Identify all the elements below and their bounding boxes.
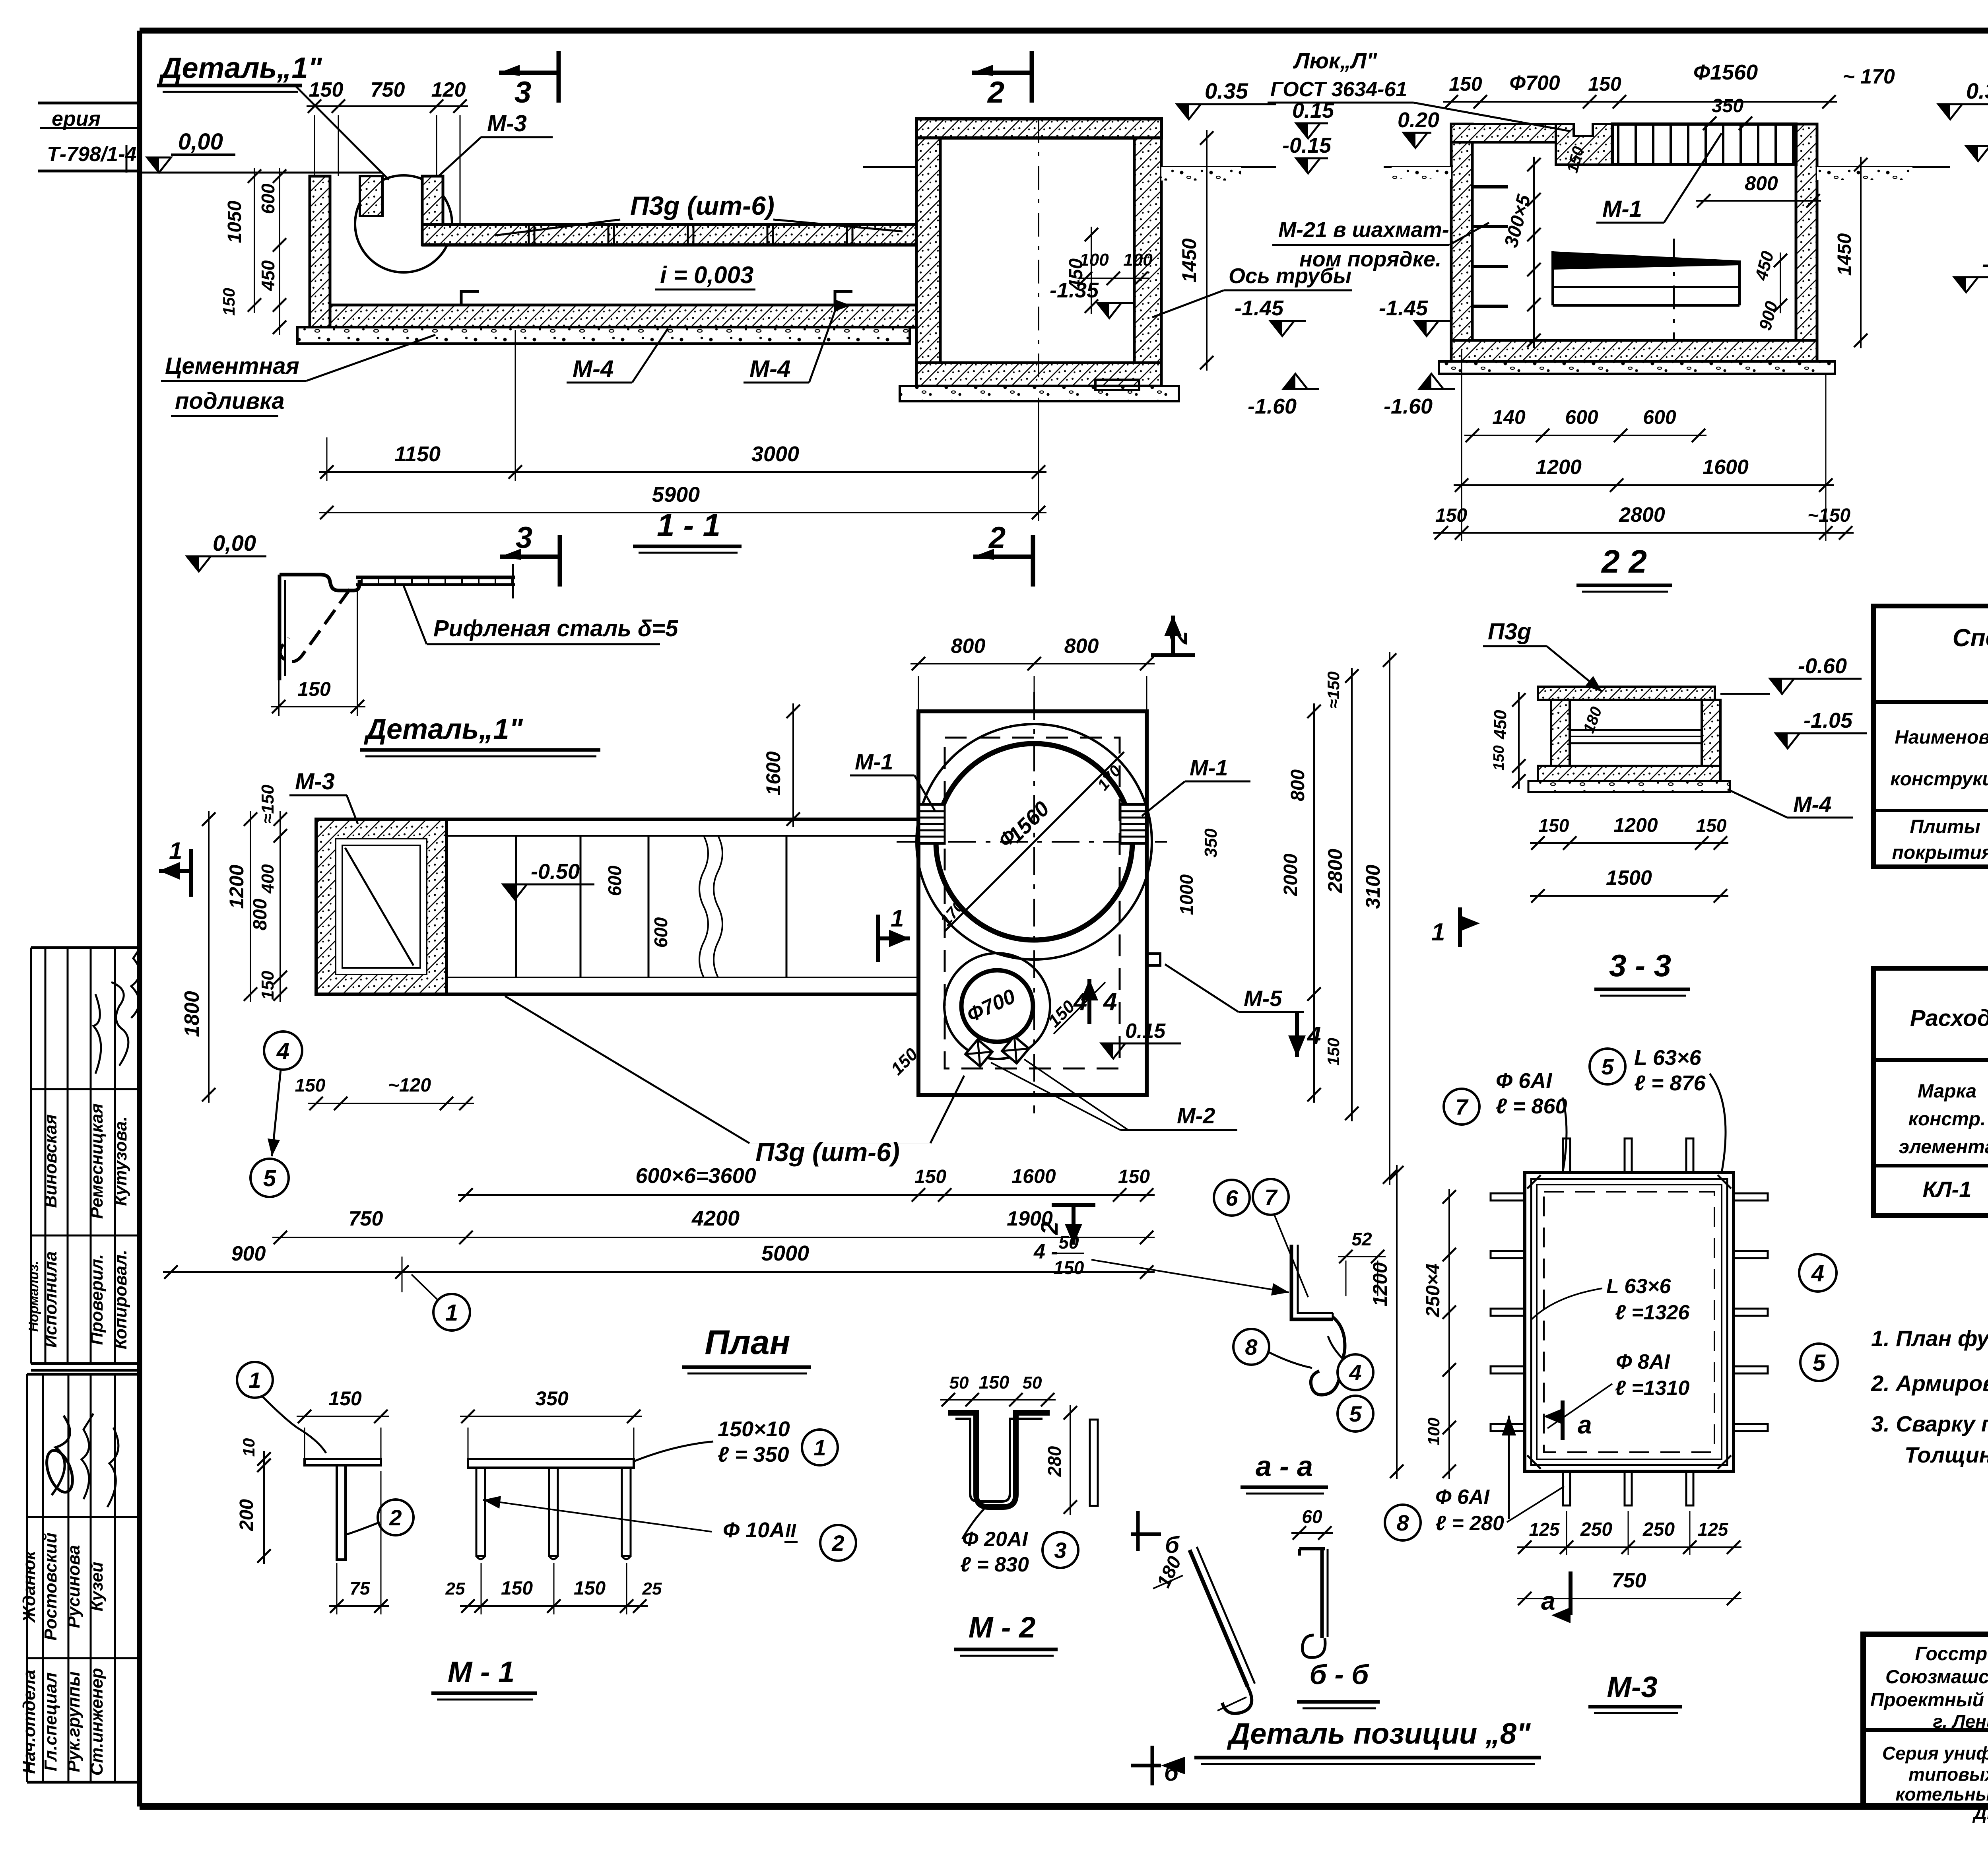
- svg-text:М-5: М-5: [1244, 986, 1282, 1011]
- svg-text:150: 150: [328, 1387, 362, 1410]
- svg-text:Т-798/1-4: Т-798/1-4: [47, 143, 137, 166]
- svg-text:Расход бетона и стали на один: Расход бетона и стали на один констр. мо…: [1910, 1005, 1988, 1031]
- svg-text:150: 150: [295, 1075, 326, 1096]
- svg-text:350: 350: [1201, 828, 1221, 858]
- svg-text:Рифленая сталь δ=5: Рифленая сталь δ=5: [433, 616, 678, 641]
- svg-text:8: 8: [1396, 1510, 1409, 1535]
- svg-text:ном порядке.: ном порядке.: [1299, 247, 1441, 271]
- svg-text:2: 2: [987, 76, 1004, 109]
- svg-text:5: 5: [1813, 1350, 1826, 1376]
- svg-text:М-1: М-1: [1190, 755, 1228, 780]
- svg-text:2. Армирование см. листы КЖ-21: 2. Армирование см. листы КЖ-21, 22.: [1871, 1371, 1988, 1396]
- svg-text:120: 120: [431, 78, 466, 101]
- svg-text:150: 150: [219, 288, 238, 316]
- svg-text:800: 800: [250, 899, 271, 930]
- svg-text:100: 100: [1123, 250, 1153, 270]
- svg-text:-1.45: -1.45: [1235, 296, 1284, 320]
- svg-text:а - а: а - а: [1256, 1451, 1313, 1482]
- svg-text:Ф 8АI: Ф 8АI: [1616, 1350, 1671, 1373]
- svg-text:4: 4: [1103, 988, 1117, 1016]
- svg-text:ℓ =1326: ℓ =1326: [1615, 1301, 1690, 1324]
- svg-text:2800: 2800: [1619, 503, 1665, 526]
- svg-text:Ф 10А: Ф 10А: [723, 1518, 785, 1542]
- svg-text:Копировал.: Копировал.: [111, 1250, 130, 1349]
- svg-text:150: 150: [1435, 505, 1467, 526]
- svg-text:Ф 6АI: Ф 6АI: [1496, 1069, 1552, 1093]
- svg-text:-1.05: -1.05: [1982, 251, 1988, 276]
- svg-text:1600: 1600: [1011, 1165, 1056, 1187]
- svg-text:-1.60: -1.60: [1248, 394, 1297, 418]
- svg-text:1800: 1800: [181, 991, 204, 1037]
- svg-text:1200: 1200: [225, 864, 248, 909]
- svg-text:констр.: констр.: [1908, 1109, 1986, 1130]
- svg-text:1. План фундаментов под оборуд: 1. План фундаментов под оборудование см.…: [1871, 1326, 1988, 1351]
- svg-text:150: 150: [1588, 73, 1621, 95]
- svg-text:Плиты: Плиты: [1910, 816, 1980, 837]
- svg-text:60: 60: [1302, 1506, 1322, 1527]
- svg-text:Толщина шва 6 мм.: Толщина шва 6 мм.: [1905, 1442, 1988, 1467]
- svg-text:450: 450: [258, 260, 278, 291]
- svg-text:Исполнила: Исполнила: [41, 1251, 60, 1348]
- svg-text:б - б: б - б: [1310, 1659, 1370, 1690]
- svg-text:Ф1560: Ф1560: [1693, 60, 1758, 84]
- svg-text:10: 10: [239, 1438, 258, 1457]
- svg-text:-1.05: -1.05: [1804, 709, 1853, 732]
- svg-text:50: 50: [1023, 1373, 1042, 1393]
- svg-text:М-4: М-4: [1793, 792, 1831, 817]
- svg-text:7: 7: [1264, 1185, 1278, 1210]
- svg-text:6: 6: [1225, 1185, 1238, 1210]
- svg-text:5: 5: [263, 1165, 276, 1191]
- svg-text:Виновская: Виновская: [41, 1114, 60, 1208]
- svg-text:М-2: М-2: [1177, 1103, 1215, 1128]
- svg-text:3100: 3100: [1362, 864, 1384, 909]
- svg-text:1150: 1150: [394, 442, 441, 466]
- svg-text:140: 140: [1492, 406, 1526, 428]
- svg-text:КЛ-1: КЛ-1: [1923, 1177, 1972, 1202]
- svg-text:Гл.специал: Гл.специал: [41, 1672, 60, 1771]
- svg-text:П3g (шт-6): П3g (шт-6): [755, 1137, 900, 1167]
- svg-text:3: 3: [1054, 1538, 1066, 1563]
- svg-text:3: 3: [516, 521, 532, 555]
- svg-text:План: План: [705, 1323, 790, 1362]
- svg-text:2 2: 2 2: [1601, 544, 1647, 580]
- svg-text:Наименов.: Наименов.: [1895, 727, 1988, 748]
- svg-text:~150: ~150: [1807, 505, 1850, 526]
- svg-text:75: 75: [349, 1578, 371, 1599]
- svg-text:150: 150: [258, 971, 278, 1000]
- svg-text:Нормализ.: Нормализ.: [26, 1261, 41, 1332]
- svg-text:125: 125: [1698, 1519, 1729, 1540]
- svg-text:П3g: П3g: [1488, 619, 1531, 645]
- svg-text:150: 150: [1324, 1038, 1343, 1066]
- svg-text:Ростовский: Ростовский: [41, 1533, 60, 1641]
- svg-text:г. Ленинград: г. Ленинград: [1933, 1711, 1988, 1732]
- svg-text:25: 25: [445, 1579, 465, 1599]
- svg-text:280: 280: [1044, 1446, 1065, 1477]
- svg-text:350: 350: [1712, 95, 1743, 117]
- svg-text:250×4: 250×4: [1423, 1264, 1444, 1318]
- svg-text:подливка: подливка: [175, 388, 285, 414]
- svg-text:150: 150: [1696, 815, 1727, 836]
- svg-text:150: 150: [1118, 1166, 1150, 1187]
- svg-text:3 - 3: 3 - 3: [1609, 948, 1671, 983]
- svg-text:Серия унифицированных: Серия унифицированных: [1882, 1743, 1988, 1764]
- svg-text:1: 1: [1431, 919, 1445, 946]
- svg-text:800: 800: [1287, 769, 1309, 801]
- svg-text:150: 150: [1491, 745, 1507, 770]
- svg-text:2800: 2800: [1324, 849, 1346, 893]
- svg-text:М-3: М-3: [487, 111, 527, 136]
- svg-text:Проектный институт №1: Проектный институт №1: [1870, 1690, 1988, 1711]
- svg-text:-1.45: -1.45: [1379, 296, 1428, 320]
- svg-text:ДКВР.: ДКВР.: [1972, 1803, 1988, 1823]
- svg-text:125: 125: [1529, 1519, 1560, 1540]
- svg-text:-0.50: -0.50: [531, 860, 580, 884]
- svg-text:5: 5: [1349, 1401, 1362, 1426]
- svg-text:150: 150: [1539, 815, 1569, 836]
- svg-text:L 63×6: L 63×6: [1606, 1275, 1671, 1298]
- svg-text:М-3: М-3: [295, 769, 335, 794]
- svg-text:800: 800: [1745, 172, 1778, 194]
- svg-text:1: 1: [169, 837, 182, 864]
- svg-text:150: 150: [914, 1166, 946, 1187]
- svg-text:ℓ = 876: ℓ = 876: [1634, 1071, 1706, 1095]
- svg-text:1200: 1200: [1536, 456, 1582, 479]
- svg-text:~ 170: ~ 170: [1842, 65, 1895, 88]
- svg-text:25: 25: [642, 1579, 662, 1599]
- svg-text:типовых проектов: типовых проектов: [1908, 1764, 1988, 1785]
- svg-text:1: 1: [813, 1435, 826, 1460]
- svg-text:1: 1: [891, 905, 904, 932]
- svg-text:2: 2: [1165, 631, 1192, 645]
- svg-text:М-1: М-1: [1602, 196, 1642, 222]
- svg-text:5: 5: [1601, 1054, 1614, 1079]
- svg-text:Госстрой С.С.С.Р.: Госстрой С.С.С.Р.: [1915, 1643, 1988, 1665]
- svg-text:600: 600: [1565, 406, 1598, 428]
- svg-text:М-4: М-4: [749, 355, 790, 382]
- svg-text:М - 1: М - 1: [448, 1655, 515, 1688]
- svg-text:1050: 1050: [224, 200, 245, 243]
- svg-text:Деталь„1": Деталь„1": [158, 51, 322, 84]
- svg-text:600: 600: [650, 917, 671, 948]
- svg-text:1500: 1500: [1606, 866, 1652, 890]
- svg-text:~120: ~120: [388, 1075, 431, 1096]
- svg-text:0,00: 0,00: [213, 530, 256, 556]
- svg-text:4200: 4200: [691, 1206, 740, 1230]
- svg-text:800: 800: [951, 635, 986, 658]
- svg-text:750: 750: [371, 78, 405, 101]
- svg-text:0.20: 0.20: [1398, 108, 1439, 132]
- svg-text:L 63×6: L 63×6: [1634, 1046, 1702, 1070]
- svg-text:750: 750: [349, 1207, 383, 1230]
- svg-text:1: 1: [248, 1367, 261, 1393]
- svg-text:ℓ = 860: ℓ = 860: [1496, 1094, 1567, 1118]
- svg-text:2: 2: [988, 521, 1006, 555]
- svg-text:Нач.отдела: Нач.отдела: [19, 1670, 39, 1774]
- svg-text:котельных с котлами: котельных с котлами: [1895, 1784, 1988, 1804]
- svg-text:2: 2: [831, 1531, 844, 1556]
- svg-text:150: 150: [979, 1372, 1010, 1393]
- svg-text:≈150: ≈150: [1324, 671, 1343, 708]
- svg-text:-1.60: -1.60: [1384, 394, 1433, 418]
- svg-text:Ремесницкая: Ремесницкая: [87, 1103, 107, 1219]
- svg-text:50: 50: [949, 1373, 969, 1393]
- svg-text:а: а: [1578, 1410, 1592, 1439]
- svg-text:0.15: 0.15: [1125, 1020, 1166, 1043]
- svg-text:3000: 3000: [751, 442, 799, 466]
- svg-text:1600: 1600: [762, 751, 784, 795]
- svg-text:Деталь позиции „8": Деталь позиции „8": [1227, 1717, 1531, 1750]
- svg-text:150×10: 150×10: [718, 1417, 790, 1441]
- svg-text:Союзмашстройпроект.: Союзмашстройпроект.: [1885, 1667, 1988, 1688]
- svg-text:150: 150: [297, 678, 331, 700]
- svg-text:5000: 5000: [761, 1241, 809, 1265]
- svg-text:200: 200: [236, 1499, 257, 1531]
- svg-text:ГОСТ 3634-61: ГОСТ 3634-61: [1270, 78, 1407, 101]
- svg-text:элемента: элемента: [1899, 1136, 1988, 1158]
- svg-text:900: 900: [231, 1242, 266, 1265]
- svg-text:4: 4: [1811, 1261, 1824, 1286]
- svg-text:0.35: 0.35: [1205, 78, 1248, 103]
- svg-text:1450: 1450: [1834, 233, 1855, 276]
- svg-text:150: 150: [1449, 73, 1482, 95]
- svg-text:Ст.инженер: Ст.инженер: [87, 1668, 107, 1776]
- svg-text:450: 450: [1491, 710, 1510, 740]
- svg-text:Спецификация сборных железобет: Спецификация сборных железобетонных конс…: [1953, 624, 1988, 652]
- svg-text:150: 150: [574, 1578, 606, 1599]
- svg-text:Люк„Л": Люк„Л": [1293, 48, 1378, 73]
- svg-text:2000: 2000: [1280, 853, 1301, 896]
- svg-text:50: 50: [1058, 1232, 1079, 1253]
- svg-text:Цементная: Цементная: [165, 353, 299, 379]
- svg-text:М-1: М-1: [855, 749, 893, 774]
- svg-text:150: 150: [1054, 1257, 1084, 1278]
- svg-text:Кутузова.: Кутузова.: [111, 1116, 130, 1206]
- svg-text:1600: 1600: [1703, 456, 1749, 479]
- svg-text:i = 0,003: i = 0,003: [660, 262, 753, 288]
- svg-text:800: 800: [1064, 635, 1099, 658]
- svg-text:150: 150: [501, 1578, 533, 1599]
- svg-text:7: 7: [1455, 1094, 1469, 1119]
- svg-text:4: 4: [1073, 988, 1087, 1016]
- svg-text:600: 600: [258, 183, 278, 214]
- svg-text:0,00: 0,00: [178, 129, 223, 155]
- svg-text:Ф 6АI: Ф 6АI: [1435, 1486, 1490, 1509]
- svg-text:-0.60: -0.60: [1798, 654, 1847, 678]
- svg-text:ℓ =1310: ℓ =1310: [1615, 1377, 1689, 1400]
- svg-text:3: 3: [514, 76, 531, 109]
- svg-text:Ф 20АI: Ф 20АI: [962, 1528, 1028, 1551]
- svg-text:600×6=3600: 600×6=3600: [635, 1164, 756, 1188]
- svg-text:II: II: [785, 1521, 796, 1542]
- svg-text:1200: 1200: [1369, 1262, 1391, 1306]
- svg-text:М - 2: М - 2: [969, 1611, 1036, 1644]
- svg-text:Кузей: Кузей: [87, 1562, 107, 1612]
- svg-text:а: а: [1541, 1587, 1555, 1615]
- svg-text:100: 100: [1424, 1418, 1443, 1445]
- svg-text:Деталь„1": Деталь„1": [363, 713, 523, 745]
- svg-text:52: 52: [1351, 1229, 1372, 1249]
- svg-text:М-4: М-4: [573, 355, 613, 382]
- svg-text:П3g (шт-6): П3g (шт-6): [630, 191, 775, 220]
- svg-text:150: 150: [309, 78, 344, 101]
- svg-text:400: 400: [258, 864, 278, 894]
- svg-text:ℓ = 280: ℓ = 280: [1435, 1512, 1504, 1535]
- svg-text:5900: 5900: [652, 483, 700, 507]
- svg-text:-0.15: -0.15: [1282, 134, 1332, 157]
- svg-text:Ф700: Ф700: [1509, 72, 1560, 95]
- svg-text:-1.35: -1.35: [1050, 278, 1099, 302]
- svg-text:2: 2: [389, 1505, 402, 1530]
- svg-text:250: 250: [1642, 1519, 1675, 1540]
- svg-text:0.15: 0.15: [1292, 99, 1334, 122]
- svg-text:250: 250: [1580, 1519, 1612, 1540]
- svg-text:ерия: ерия: [52, 107, 101, 130]
- svg-text:1: 1: [445, 1300, 458, 1326]
- svg-text:4: 4: [1349, 1360, 1361, 1385]
- svg-text:б: б: [1165, 1532, 1180, 1558]
- svg-text:350: 350: [535, 1387, 569, 1410]
- svg-text:Проверил.: Проверил.: [87, 1254, 107, 1345]
- svg-text:3. Сварку производить электрод: 3. Сварку производить электродами марки …: [1871, 1411, 1988, 1436]
- svg-text:8: 8: [1245, 1334, 1258, 1360]
- svg-text:М-21 в шахмат-: М-21 в шахмат-: [1278, 218, 1449, 242]
- svg-text:4: 4: [276, 1038, 289, 1064]
- svg-text:1 - 1: 1 - 1: [657, 507, 720, 543]
- svg-text:Русинова: Русинова: [64, 1545, 83, 1628]
- svg-text:покрытия.: покрытия.: [1892, 842, 1988, 863]
- svg-text:1000: 1000: [1176, 874, 1197, 915]
- svg-text:≈150: ≈150: [258, 785, 278, 824]
- svg-text:750: 750: [1612, 1569, 1646, 1592]
- svg-text:Рук.группы: Рук.группы: [64, 1671, 83, 1772]
- svg-text:100: 100: [1079, 250, 1109, 270]
- svg-text:ℓ = 350: ℓ = 350: [718, 1443, 789, 1467]
- svg-text:ℓ = 830: ℓ = 830: [960, 1553, 1029, 1576]
- svg-text:М-3: М-3: [1607, 1670, 1657, 1703]
- svg-text:0.35: 0.35: [1966, 78, 1988, 103]
- svg-text:Жданюк: Жданюк: [19, 1550, 39, 1623]
- svg-text:Марка: Марка: [1918, 1081, 1976, 1102]
- svg-text:1450: 1450: [1178, 238, 1200, 282]
- svg-text:1200: 1200: [1613, 814, 1658, 836]
- svg-text:600: 600: [1643, 406, 1676, 428]
- svg-text:конструкц.: конструкц.: [1890, 769, 1988, 790]
- svg-text:600: 600: [604, 865, 625, 896]
